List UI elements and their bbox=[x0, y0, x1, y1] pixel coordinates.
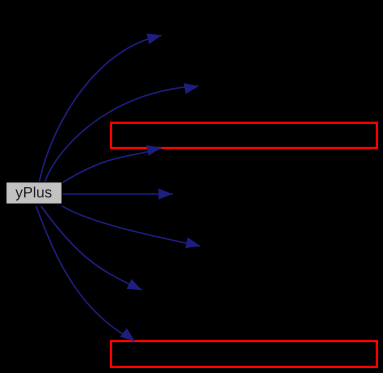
wire edge 5 bbox=[62, 206, 201, 248]
wire edge 1 bbox=[39, 33, 162, 183]
wire edge 3 bbox=[62, 145, 162, 183]
node yPlus bbox=[6, 182, 62, 204]
wire edge 4 bbox=[63, 189, 173, 200]
wire edge 6 bbox=[41, 206, 142, 290]
node box red 1 (truncated include) bbox=[111, 123, 377, 148]
wire edge 7 bbox=[36, 206, 135, 341]
node box red 2 (truncated include) bbox=[111, 341, 377, 367]
wire edge 2 bbox=[45, 83, 199, 183]
